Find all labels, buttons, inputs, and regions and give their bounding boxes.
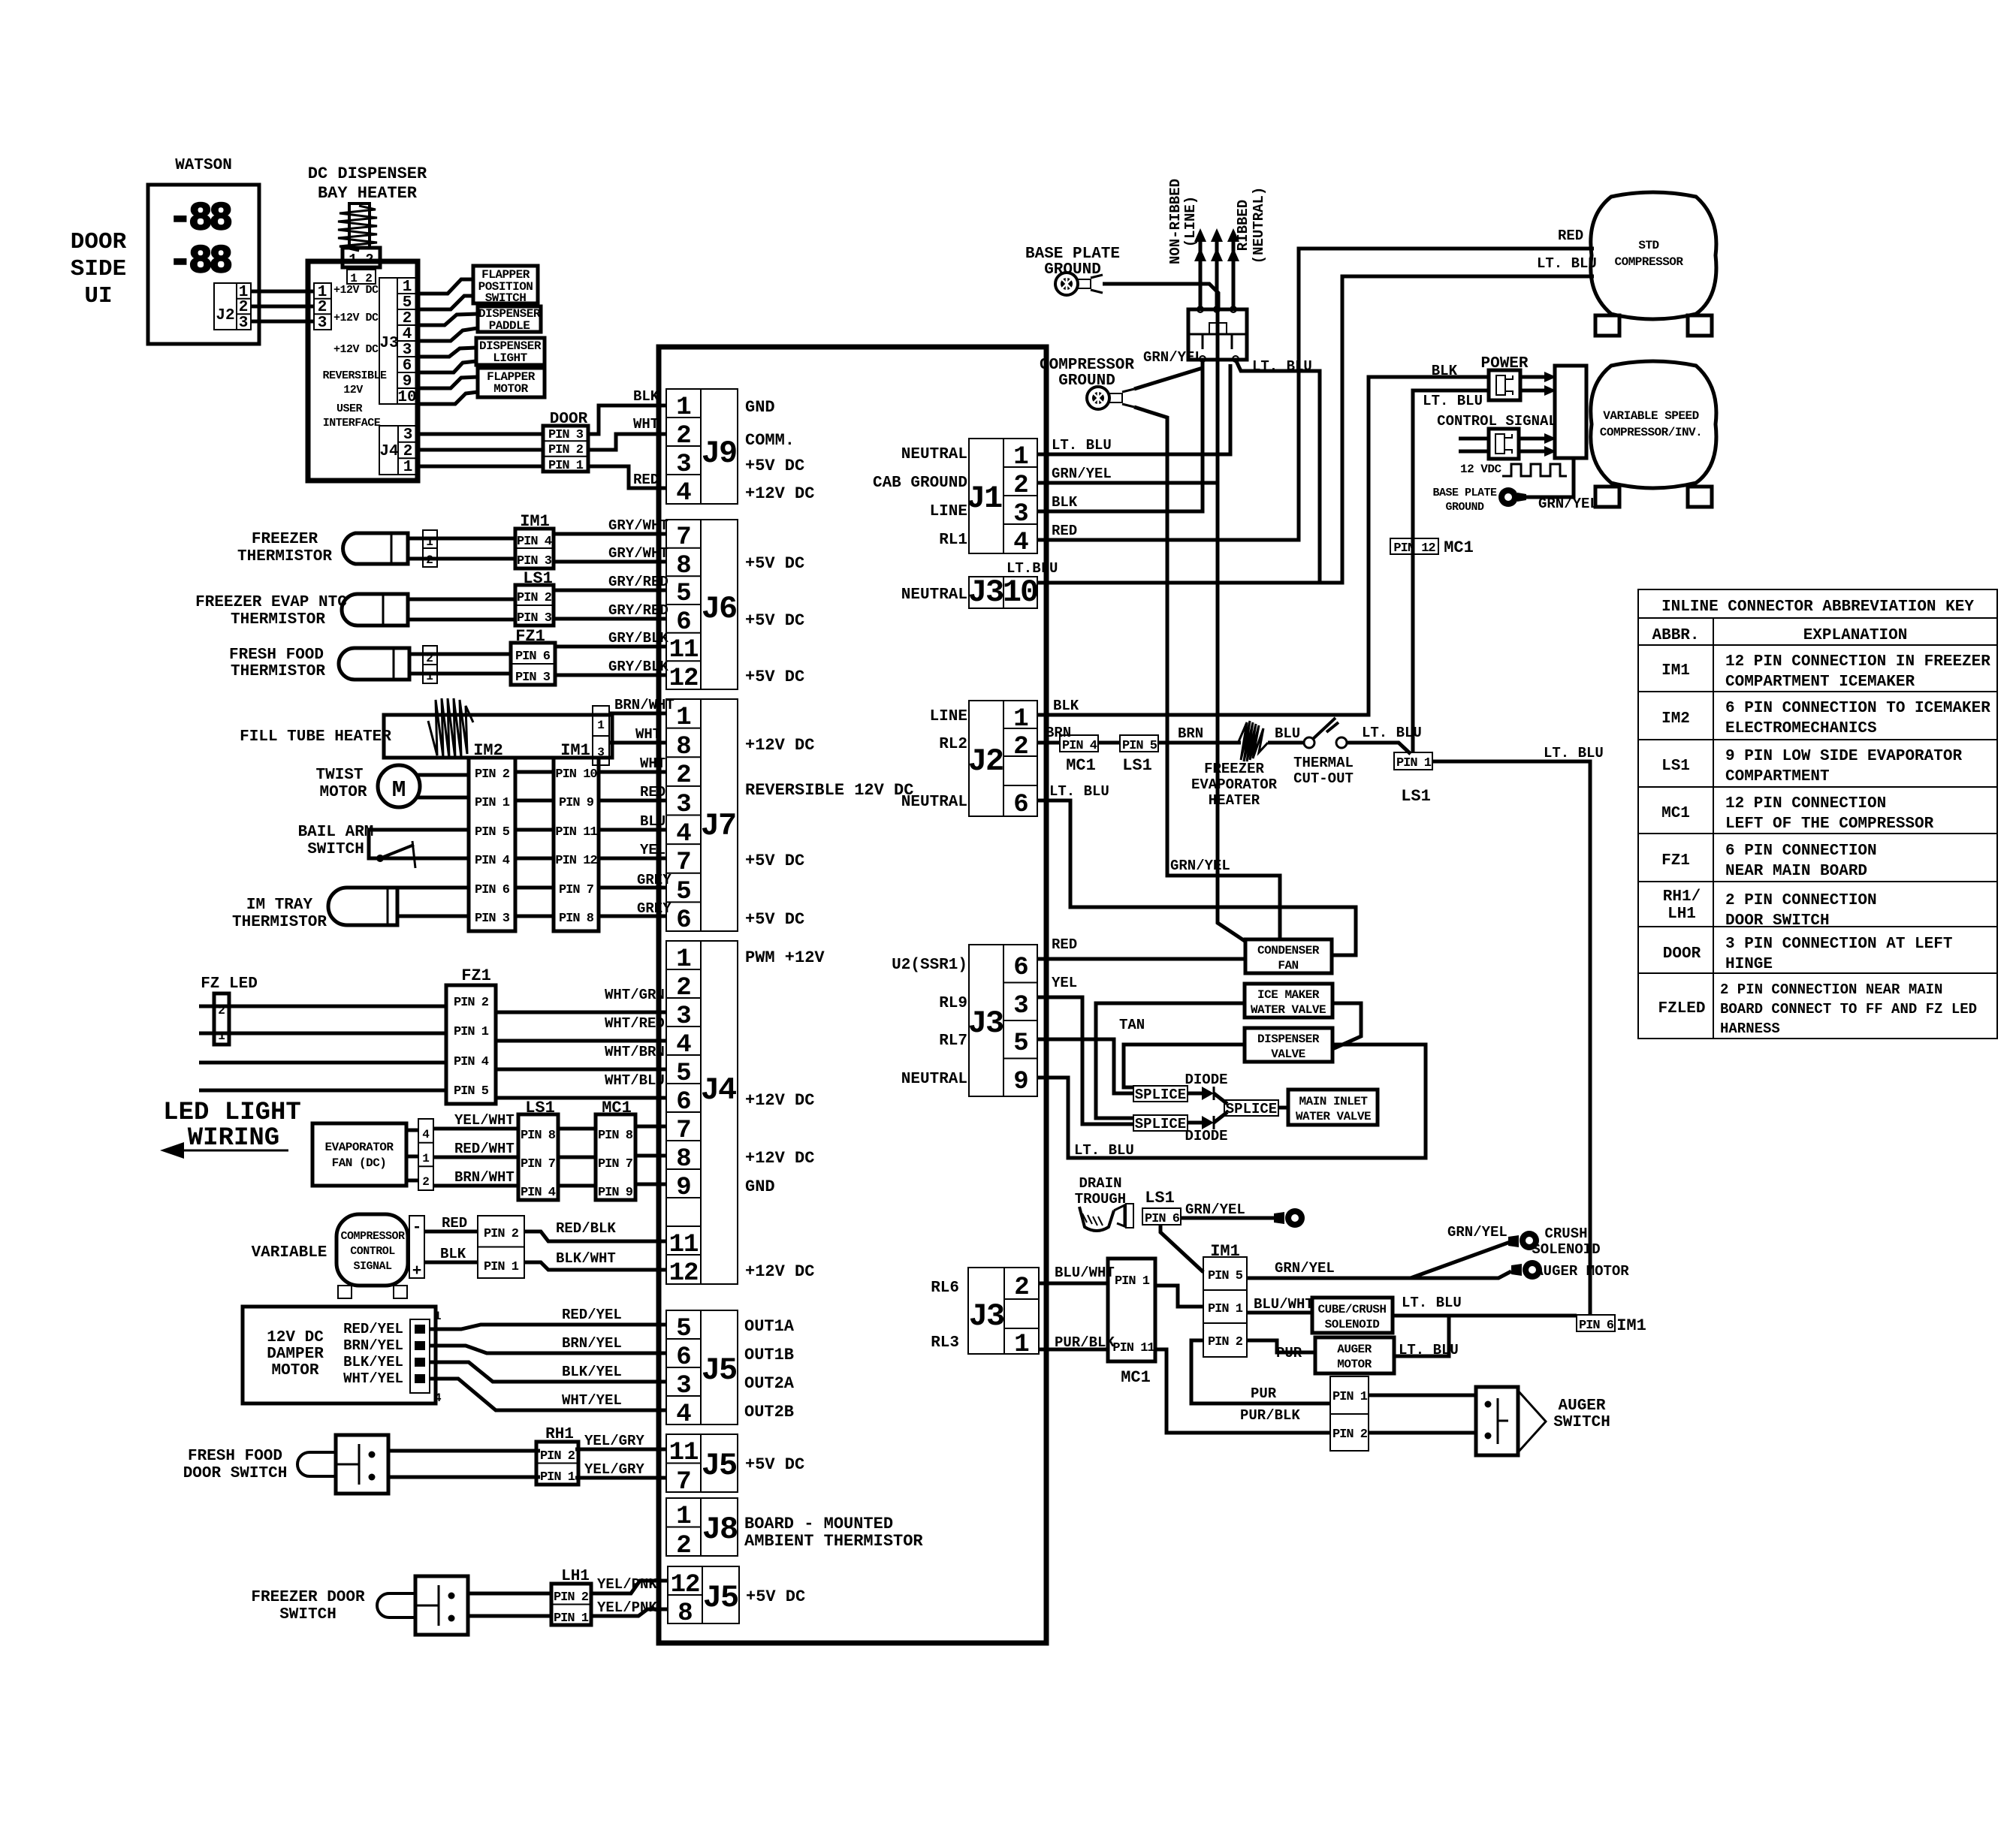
FZ LED wires to J4 — [199, 987, 666, 1098]
wires ff thermistor to J6 — [409, 630, 668, 675]
label DC DISPENSER BAY HEATER — [308, 164, 427, 203]
svg-text:+12V DC: +12V DC — [745, 1149, 814, 1168]
svg-text:BAIL ARM: BAIL ARM — [298, 824, 374, 841]
VS compressor feet — [1595, 487, 1712, 507]
wire MC1 PIN11 to auger switch PIN2 — [1155, 1349, 1330, 1433]
svg-text:GRN/YEL: GRN/YEL — [1052, 466, 1112, 482]
wire J1 pin1 LT BLU — [1037, 364, 1230, 454]
svg-text:BAY HEATER: BAY HEATER — [318, 184, 418, 203]
connector FZ1 ff therm — [511, 643, 555, 685]
svg-text:8: 8 — [676, 733, 690, 761]
J3 bottom labels — [931, 1265, 1115, 1352]
label FRESH FOOD DOOR SWITCH — [183, 1448, 288, 1482]
svg-text:THERMISTOR: THERMISTOR — [232, 914, 327, 931]
svg-text:1: 1 — [403, 279, 412, 296]
svg-text:J8: J8 — [702, 1512, 737, 1548]
svg-text:BOARD - MOUNTED: BOARD - MOUNTED — [744, 1515, 893, 1533]
svg-text:5: 5 — [403, 294, 412, 312]
svg-text:LS1: LS1 — [1145, 1189, 1175, 1207]
svg-text:THERMAL: THERMAL — [1293, 755, 1354, 771]
wire auger motor to LT BLU join — [1394, 1316, 1449, 1356]
svg-text:+12V DC: +12V DC — [745, 484, 814, 503]
svg-text:BLU/WHT: BLU/WHT — [1254, 1296, 1314, 1313]
svg-text:6: 6 — [1013, 954, 1028, 982]
J9 pin labels — [745, 398, 814, 503]
label DRAIN TROUGH — [1075, 1175, 1126, 1207]
svg-text:DOOR SWITCH: DOOR SWITCH — [1725, 912, 1830, 930]
label FZ LED — [201, 975, 258, 993]
connector J4 on UI — [379, 426, 418, 476]
svg-text:FREEZER: FREEZER — [1204, 761, 1264, 777]
svg-text:5: 5 — [676, 878, 690, 906]
label BRN — [1178, 725, 1203, 742]
wires LS1 to MC1 to J4 — [558, 1126, 666, 1186]
svg-text:CONTROL: CONTROL — [350, 1245, 395, 1258]
svg-text:LT. BLU: LT. BLU — [1423, 393, 1483, 409]
connector J3 pin10 — [968, 574, 1037, 610]
table row FZ1 — [1661, 843, 1877, 880]
svg-text:RED/YEL: RED/YEL — [343, 1321, 403, 1337]
svg-text:COMPARTMENT: COMPARTMENT — [1725, 768, 1830, 785]
svg-text:REVERSIBLE: REVERSIBLE — [322, 369, 387, 382]
svg-text:7: 7 — [676, 1117, 690, 1145]
svg-text:CRUSH: CRUSH — [1544, 1225, 1587, 1242]
svg-text:SWITCH: SWITCH — [307, 841, 364, 858]
svg-text:J2: J2 — [968, 743, 1003, 779]
svg-text:PIN 2: PIN 2 — [1332, 1427, 1368, 1442]
svg-text:WATER VALVE: WATER VALVE — [1251, 1003, 1326, 1017]
svg-text:BASE PLATE: BASE PLATE — [1025, 246, 1120, 263]
svg-text:BLK: BLK — [1053, 698, 1079, 714]
svg-text:3: 3 — [318, 315, 327, 332]
user interface box — [308, 261, 418, 481]
svg-text:NON-RIBBED: NON-RIBBED — [1167, 179, 1184, 264]
svg-text:5: 5 — [676, 1315, 690, 1343]
svg-text:BRN: BRN — [1178, 725, 1203, 742]
svg-text:PIN 1: PIN 1 — [548, 459, 584, 473]
dispenser valve box — [1245, 1028, 1332, 1062]
label BAIL ARM SWITCH — [298, 824, 374, 858]
svg-text:PIN 1: PIN 1 — [554, 1611, 589, 1626]
svg-text:1: 1 — [1013, 705, 1028, 734]
svg-text:GRN/YEL: GRN/YEL — [1447, 1224, 1507, 1241]
svg-text:NEUTRAL: NEUTRAL — [901, 446, 967, 463]
fresh food 2-pin connector — [423, 646, 437, 683]
diode bottom — [1188, 1112, 1227, 1129]
svg-text:PIN 9: PIN 9 — [559, 796, 594, 810]
connector PIN 6 LS1 drain — [1142, 1208, 1181, 1226]
connector J1 — [967, 439, 1037, 557]
label BLU — [1275, 725, 1300, 742]
svg-text:4: 4 — [434, 1391, 442, 1405]
wires damper motor to J5 — [430, 1307, 666, 1410]
connector FZ1 led — [446, 985, 496, 1104]
svg-text:1: 1 — [597, 719, 605, 732]
svg-text:FREEZER EVAP NTC: FREEZER EVAP NTC — [195, 594, 347, 611]
J6 pin labels — [745, 554, 804, 686]
svg-text:J9: J9 — [702, 436, 736, 472]
connector DOOR — [543, 426, 588, 473]
label IM1 bottom stack — [1210, 1242, 1240, 1261]
label LH1 — [561, 1568, 590, 1585]
svg-text:PIN 3: PIN 3 — [517, 611, 552, 626]
svg-text:SPLICE: SPLICE — [1226, 1101, 1277, 1117]
svg-text:WHT/YEL: WHT/YEL — [562, 1392, 622, 1409]
inline connector abbreviation key table — [1638, 589, 1997, 1039]
wire YEL J3 to splice — [1037, 997, 1133, 1124]
svg-text:PUR: PUR — [1251, 1385, 1277, 1402]
label LT. BLU auger motor — [1399, 1342, 1459, 1358]
svg-text:+5V DC: +5V DC — [745, 554, 804, 573]
svg-text:FZ1: FZ1 — [461, 966, 491, 985]
wire IM1 PIN2 PUR to auger switch PIN1 — [1191, 1340, 1330, 1403]
svg-text:UI: UI — [84, 283, 112, 309]
connector LS1 fan — [518, 1114, 558, 1200]
svg-text:PIN 2: PIN 2 — [454, 996, 489, 1010]
svg-text:RH1/: RH1/ — [1663, 888, 1701, 906]
svg-text:2: 2 — [1013, 733, 1028, 761]
svg-text:NEUTRAL: NEUTRAL — [901, 794, 967, 811]
svg-text:PIN 1: PIN 1 — [1332, 1390, 1368, 1404]
svg-text:J5: J5 — [703, 1580, 738, 1616]
svg-text:WHT: WHT — [640, 755, 665, 772]
fill tube heater connector — [593, 706, 609, 765]
svg-text:1: 1 — [1014, 1331, 1028, 1359]
J1 wire labels — [1052, 437, 1112, 539]
label LT. BLU cutout — [1362, 725, 1422, 741]
svg-text:AUGER: AUGER — [1337, 1343, 1372, 1356]
wire junction box LT BLU to STD trunk — [1236, 360, 1320, 583]
svg-text:9: 9 — [676, 1174, 690, 1202]
svg-text:BRN/YEL: BRN/YEL — [343, 1337, 403, 1354]
svg-text:9: 9 — [403, 373, 412, 390]
svg-text:PIN 4: PIN 4 — [454, 1055, 489, 1069]
table row LS1 — [1661, 748, 1962, 785]
svg-text:GND: GND — [745, 398, 775, 417]
svg-text:6 PIN CONNECTION: 6 PIN CONNECTION — [1725, 843, 1877, 860]
svg-text:+12V DC: +12V DC — [745, 1262, 814, 1281]
svg-text:3: 3 — [676, 791, 690, 819]
J8 labels — [744, 1515, 923, 1551]
connector IM2 icemaker — [469, 758, 515, 931]
table title — [1661, 598, 1974, 616]
wire PIN6 diagonal to IM1 PIN5 — [1160, 1225, 1203, 1272]
svg-text:BLK: BLK — [1052, 494, 1078, 511]
wire PIN5 to heater coil — [1158, 741, 1241, 745]
dispenser bay heater element — [338, 203, 377, 251]
label LS1 — [523, 569, 553, 588]
wire LT BLU to power plug from LS1 PIN1 — [1413, 390, 1489, 752]
svg-text:WHT/YEL: WHT/YEL — [343, 1370, 403, 1387]
svg-text:J3: J3 — [968, 574, 1003, 610]
svg-text:IM TRAY: IM TRAY — [246, 897, 313, 914]
svg-text:LIGHT: LIGHT — [493, 351, 527, 365]
label DOOR SIDE UI — [71, 229, 127, 309]
label FREEZER EVAP NTC THERMISTOR — [195, 594, 347, 629]
svg-text:2: 2 — [676, 422, 690, 451]
svg-text:PIN 3: PIN 3 — [517, 554, 552, 568]
svg-text:PIN 2: PIN 2 — [475, 767, 510, 782]
connector PIN 4 MC1 — [1060, 735, 1098, 775]
svg-text:J6: J6 — [702, 591, 736, 627]
svg-text:BLK/YEL: BLK/YEL — [562, 1364, 622, 1380]
fill tube heater body — [384, 698, 612, 758]
svg-text:SIGNAL: SIGNAL — [353, 1260, 392, 1273]
splice bottom — [1133, 1115, 1188, 1132]
svg-text:SOLENOID: SOLENOID — [1532, 1241, 1600, 1258]
svg-text:MOTOR: MOTOR — [493, 382, 528, 396]
svg-text:PIN 1: PIN 1 — [454, 1025, 489, 1039]
svg-text:BLU: BLU — [640, 813, 665, 830]
connector J3 bottom — [968, 1268, 1039, 1359]
svg-text:WATSON: WATSON — [175, 157, 232, 174]
svg-text:-88: -88 — [168, 197, 231, 241]
connector PIN 6 IM1 right — [1577, 1315, 1646, 1335]
svg-text:PIN 6: PIN 6 — [515, 650, 551, 664]
svg-text:DRAIN: DRAIN — [1079, 1175, 1121, 1192]
svg-text:12V: 12V — [343, 384, 363, 396]
svg-text:REVERSIBLE 12V DC: REVERSIBLE 12V DC — [745, 781, 913, 800]
svg-text:J3: J3 — [969, 1298, 1004, 1334]
connector IM1 bottom stack — [1203, 1257, 1247, 1357]
svg-text:3: 3 — [676, 1002, 690, 1031]
svg-text:FILL TUBE HEATER: FILL TUBE HEATER — [240, 728, 391, 746]
connector J5 b — [666, 1434, 738, 1497]
VS compressor connector — [1555, 366, 1586, 458]
wire J3-10 LT BLU riser to STD compressor — [1037, 276, 1594, 583]
table row DOOR — [1663, 936, 1953, 973]
svg-text:LT. BLU: LT. BLU — [1362, 725, 1422, 741]
wire dispenser valve left to splice — [1124, 1045, 1245, 1087]
label LT. BLU loop — [1074, 1142, 1134, 1159]
svg-text:TWIST: TWIST — [315, 767, 363, 784]
label BASE PLATE GROUND top — [1025, 246, 1120, 279]
label FILL TUBE HEATER — [240, 728, 391, 746]
svg-text:COMPRESSOR/INV.: COMPRESSOR/INV. — [1600, 426, 1703, 439]
svg-text:LS1: LS1 — [1122, 756, 1152, 775]
label IM1 top — [520, 512, 550, 531]
svg-text:SIDE: SIDE — [71, 256, 126, 282]
label COMPRESSOR GROUND — [1040, 357, 1134, 390]
svg-text:INLINE CONNECTOR ABBREVIATION: INLINE CONNECTOR ABBREVIATION KEY — [1661, 598, 1974, 616]
svg-text:PADDLE: PADDLE — [489, 319, 530, 333]
J4 pin labels — [745, 948, 825, 1281]
svg-text:PIN 2: PIN 2 — [517, 591, 552, 605]
main inlet water valve box — [1288, 1090, 1378, 1125]
svg-text:U2(SSR1): U2(SSR1) — [892, 957, 967, 974]
svg-text:COMPRESSOR: COMPRESSOR — [340, 1230, 405, 1243]
J3 mid left labels — [892, 957, 967, 1088]
svg-text:12: 12 — [669, 1259, 699, 1288]
svg-text:PIN 1: PIN 1 — [1396, 756, 1432, 770]
drain trough symbol — [1079, 1204, 1133, 1231]
wires J3-9,10 to flapper motor — [416, 377, 478, 404]
svg-text:ICE MAKER: ICE MAKER — [1257, 988, 1320, 1002]
wire RED J3 to condenser fan — [1037, 957, 1245, 961]
svg-text:ELECTROMECHANICS: ELECTROMECHANICS — [1725, 720, 1877, 737]
wire ice maker valve left to splice — [1096, 1003, 1245, 1118]
svg-text:2: 2 — [422, 1175, 430, 1189]
svg-text:FAN: FAN — [1278, 959, 1298, 972]
wire ice maker valve right link — [1332, 1003, 1361, 1049]
svg-text:2: 2 — [239, 299, 249, 316]
svg-text:PIN 3: PIN 3 — [548, 428, 584, 442]
connector MC1 bottom stack — [1108, 1259, 1155, 1387]
svg-text:+12V DC: +12V DC — [333, 343, 379, 356]
svg-text:+12V DC: +12V DC — [745, 736, 814, 755]
svg-text:2: 2 — [403, 443, 413, 460]
freezer thermistor 2-pin connector — [423, 530, 437, 567]
label VARIABLE — [252, 1244, 327, 1262]
svg-text:THERMISTOR: THERMISTOR — [237, 548, 332, 565]
svg-text:YEL: YEL — [1052, 975, 1077, 991]
svg-text:FAN (DC): FAN (DC) — [332, 1156, 387, 1170]
svg-text:DIODE: DIODE — [1185, 1128, 1227, 1144]
ring terminal drain ground — [1274, 1208, 1305, 1228]
svg-text:J2: J2 — [216, 307, 234, 324]
svg-text:10: 10 — [397, 389, 416, 406]
connector J4 — [666, 941, 738, 1288]
wires J3-2,4 to dispenser paddle — [416, 314, 478, 341]
diode top — [1188, 1087, 1227, 1104]
svg-text:PIN 1: PIN 1 — [540, 1470, 575, 1485]
wire cutout to LS1 PIN1 — [1347, 743, 1411, 754]
svg-text:MC1: MC1 — [1121, 1368, 1151, 1387]
svg-text:WHT: WHT — [633, 416, 659, 433]
svg-text:PIN 6: PIN 6 — [475, 883, 510, 897]
label IM2 — [473, 741, 503, 760]
svg-text:LT. BLU: LT. BLU — [1544, 745, 1604, 761]
wire GRN/YEL down to condenser fan — [1218, 483, 1245, 941]
svg-text:6: 6 — [676, 1088, 690, 1117]
svg-text:LH1: LH1 — [1667, 906, 1696, 923]
svg-text:BLK/WHT: BLK/WHT — [556, 1250, 616, 1267]
svg-text:1: 1 — [676, 704, 690, 732]
wires control signal plug — [1459, 433, 1556, 457]
wire TAN J3 to splice — [1037, 1039, 1133, 1093]
svg-text:LT. BLU: LT. BLU — [1074, 1142, 1134, 1159]
wires freezer door switch to J5 — [468, 1576, 668, 1616]
svg-text:6: 6 — [676, 608, 690, 637]
label POWER — [1480, 355, 1528, 372]
FZ LED connector — [214, 993, 229, 1045]
svg-text:OUT1A: OUT1A — [744, 1317, 795, 1336]
svg-text:RL6: RL6 — [931, 1280, 959, 1297]
label RED at STD compressor — [1558, 228, 1583, 244]
svg-text:RED/BLK: RED/BLK — [556, 1220, 616, 1237]
label LT. BLU cube — [1402, 1295, 1462, 1311]
svg-text:J7: J7 — [701, 808, 735, 844]
table row RH1/LH1 — [1663, 888, 1877, 930]
svg-text:+5V DC: +5V DC — [745, 611, 804, 630]
wire IM1 PIN5 GRN/YEL to auger motor ground — [1247, 1271, 1511, 1278]
svg-text:PIN 4: PIN 4 — [521, 1186, 556, 1200]
svg-text:HEATER: HEATER — [1209, 792, 1260, 809]
label AUGER SWITCH — [1553, 1397, 1610, 1431]
svg-text:RED: RED — [442, 1215, 467, 1232]
J5 c label — [746, 1587, 805, 1606]
wire J1 pin2 GRN/YEL — [1037, 299, 1218, 483]
label FZ1 led — [461, 966, 491, 985]
svg-text:HARNESS: HARNESS — [1720, 1020, 1780, 1037]
svg-text:IM2: IM2 — [1661, 710, 1690, 728]
svg-text:PIN 9: PIN 9 — [598, 1186, 633, 1200]
UI internal labels — [322, 284, 387, 430]
flapper motor box — [478, 368, 545, 397]
svg-text:2: 2 — [1013, 472, 1028, 500]
freezer door switch — [377, 1576, 468, 1635]
connector J8 — [666, 1498, 738, 1560]
wires power plug to VS connector — [1520, 372, 1556, 396]
label GRN/YEL VS — [1538, 496, 1598, 512]
svg-text:J4: J4 — [701, 1072, 736, 1108]
svg-text:LED LIGHT: LED LIGHT — [163, 1099, 301, 1127]
svg-text:LINE: LINE — [930, 708, 967, 725]
connector RH1 — [536, 1442, 578, 1485]
svg-text:12: 12 — [671, 1571, 700, 1599]
svg-text:FZ LED: FZ LED — [201, 975, 258, 993]
svg-text:12: 12 — [669, 665, 699, 693]
svg-text:DC DISPENSER: DC DISPENSER — [308, 164, 427, 183]
svg-text:YEL/PNK: YEL/PNK — [597, 1576, 657, 1593]
svg-text:J1: J1 — [967, 481, 1002, 517]
svg-text:PIN 12: PIN 12 — [555, 854, 597, 868]
wires UI J4 to DOOR — [418, 434, 543, 466]
connector LH1 — [551, 1584, 591, 1626]
STD compressor feet — [1595, 315, 1712, 336]
svg-text:RL1: RL1 — [939, 532, 967, 549]
Watson display box — [148, 185, 259, 344]
label GRN/YEL mid — [1170, 858, 1230, 874]
wire LS1 PIN1 to PIN6 IM1 — [1432, 761, 1590, 1315]
wire cube/crush to PIN6 — [1393, 1314, 1577, 1318]
wires DOOR to J9 with labels — [588, 388, 666, 488]
svg-text:PIN 10: PIN 10 — [555, 767, 597, 782]
svg-text:3: 3 — [403, 427, 413, 444]
svg-text:RED: RED — [633, 472, 659, 488]
svg-text:PIN 11: PIN 11 — [555, 825, 597, 840]
connector MC1 fan — [596, 1114, 635, 1200]
wires twist motor to IM2 — [418, 775, 469, 797]
svg-text:PIN 2: PIN 2 — [484, 1227, 519, 1241]
svg-text:PIN 2: PIN 2 — [540, 1449, 575, 1464]
svg-text:PIN 2: PIN 2 — [554, 1590, 589, 1605]
ring terminal compressor ground — [1087, 387, 1134, 409]
svg-text:WHT/GRN: WHT/GRN — [605, 987, 665, 1003]
svg-text:FRESH FOOD: FRESH FOOD — [229, 647, 324, 664]
svg-text:SWITCH: SWITCH — [1553, 1414, 1610, 1431]
svg-text:PIN 3: PIN 3 — [475, 912, 510, 926]
connector J9 — [666, 389, 738, 508]
svg-text:DOOR SWITCH: DOOR SWITCH — [183, 1465, 288, 1482]
svg-text:PIN 5: PIN 5 — [454, 1084, 489, 1099]
svg-text:-88: -88 — [168, 240, 231, 284]
ring terminal auger motor ground — [1511, 1260, 1542, 1280]
table row MC1 — [1661, 795, 1934, 833]
svg-text:2: 2 — [676, 1532, 690, 1560]
svg-text:RL3: RL3 — [931, 1334, 959, 1352]
svg-text:PIN 1: PIN 1 — [1115, 1274, 1150, 1289]
svg-text:EVAPORATOR: EVAPORATOR — [324, 1141, 394, 1154]
svg-text:CUBE/CRUSH: CUBE/CRUSH — [1317, 1303, 1386, 1316]
wire MC1 PIN1 to IM1 PIN1 — [1155, 1286, 1203, 1307]
svg-text:4: 4 — [676, 1400, 691, 1429]
wire BLK J2 pin1 to power plug — [1037, 377, 1489, 715]
connector J3 on UI — [379, 278, 417, 406]
wire LT BLU neutral loop — [1037, 1045, 1426, 1158]
svg-text:RL9: RL9 — [939, 995, 967, 1012]
label BLU/WHT cube — [1254, 1296, 1314, 1313]
